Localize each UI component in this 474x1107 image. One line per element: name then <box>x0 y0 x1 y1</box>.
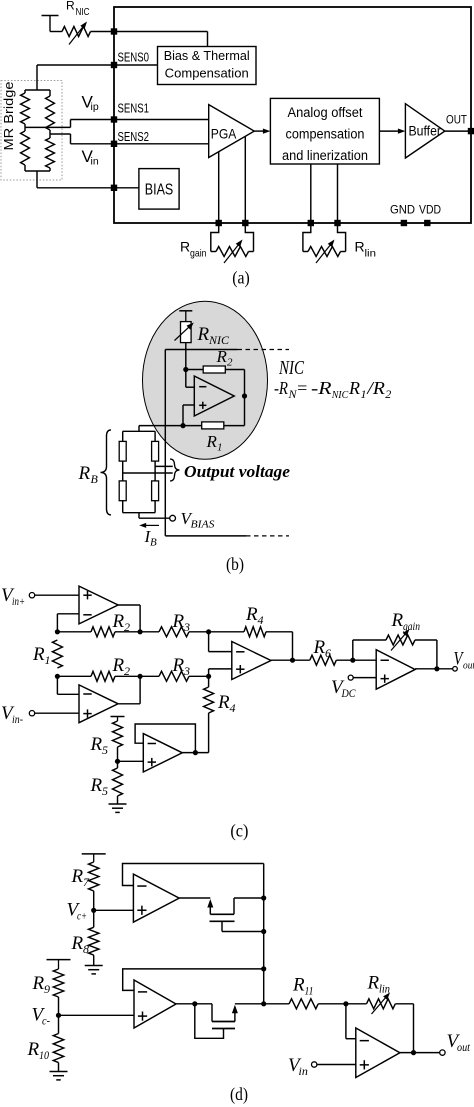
terminal stub above R_NIC <box>179 310 192 312</box>
wire A2 inverting input <box>57 693 79 695</box>
brace for output voltage <box>170 459 180 481</box>
node B3 output <box>411 1050 416 1055</box>
svg-text:3: 3 <box>183 664 190 678</box>
resistor R_6 <box>293 659 310 661</box>
svg-text:gain: gain <box>190 248 207 260</box>
wire SENS0 to Bias block <box>114 64 158 66</box>
resistor R_4 (vertical) <box>208 676 210 687</box>
resistor R_3 (bottom row) <box>140 675 159 677</box>
node A5 output <box>434 666 439 671</box>
wire B1 feedback loop <box>123 864 264 886</box>
svg-text:R: R <box>172 611 185 632</box>
wire R_gain down to output <box>436 640 438 669</box>
bridge resistor right-bottom <box>49 134 51 138</box>
wire A2 output feedback <box>118 703 140 705</box>
svg-text:10: 10 <box>39 1048 49 1062</box>
svg-text:R: R <box>216 347 228 366</box>
transistor Q1 (source arrow) <box>207 899 213 908</box>
node R_11 / B3 inverting <box>343 1001 348 1006</box>
node A2 inverting <box>55 674 60 679</box>
amplifier PGA triangle <box>209 105 255 158</box>
resistor R_NIC (variable, box style) <box>181 322 192 343</box>
node SENS0-bus / R_NIC junction <box>111 28 117 34</box>
svg-text:in: in <box>91 156 99 168</box>
node Q1 gate on bus <box>261 929 266 934</box>
dashed wire continuation bottom <box>246 535 289 537</box>
terminal V_out (d) <box>440 1050 445 1055</box>
wire output tap lower (from left column) <box>123 472 173 474</box>
wire output tap upper (from right column) <box>155 465 173 467</box>
wire R_gain feedback up <box>352 640 354 660</box>
wire Q2 gate loop to output node <box>195 1004 224 1039</box>
op-amp U1 (NIC) <box>194 376 234 416</box>
svg-text:1: 1 <box>217 442 223 454</box>
svg-text:ip: ip <box>91 101 99 113</box>
wire A3 feedback loop <box>135 724 195 753</box>
MR bridge dashed enclosure <box>1 81 62 181</box>
wire A5 output <box>415 668 453 670</box>
svg-text:2: 2 <box>124 620 130 634</box>
svg-text:9: 9 <box>44 982 50 996</box>
bus wire V_BIAS vertical <box>164 350 166 536</box>
wire Q1 gate to bus <box>221 921 223 931</box>
terminal V_in- <box>29 711 34 716</box>
resistor R_1 (vertical) <box>52 640 62 668</box>
terminal V_DC <box>348 675 353 680</box>
wire bottom node to A4 non-inverting <box>208 669 210 676</box>
wire top node to A4 inverting <box>208 632 210 652</box>
op-amp A1 <box>79 586 118 624</box>
svg-text:-R: -R <box>311 378 332 398</box>
svg-text:R: R <box>348 378 360 398</box>
wire node B down to R_B bridge top <box>138 426 140 432</box>
svg-text:3: 3 <box>183 620 190 634</box>
svg-text:Compensation: Compensation <box>165 66 249 81</box>
terminal V_in+ <box>29 593 34 598</box>
node B (+input/R_1/R_B top) <box>180 423 185 428</box>
wire V_c- to B2 <box>59 1014 135 1016</box>
wire node B line <box>139 425 202 427</box>
node BIAS <box>111 185 117 191</box>
node A4 output <box>290 658 295 663</box>
svg-text:5: 5 <box>102 743 108 757</box>
resistor R_lin (external variable) <box>303 223 311 252</box>
svg-text:(d): (d) <box>230 1084 248 1105</box>
node R_3/R_4 top <box>206 629 211 634</box>
node R_5 divider <box>115 759 120 764</box>
svg-text:4: 4 <box>230 701 236 715</box>
svg-text:R: R <box>313 637 326 658</box>
svg-text:in: in <box>299 1064 308 1078</box>
resistor R_B right-bottom (box) <box>152 481 159 501</box>
op-amp B3 <box>356 1028 400 1078</box>
pin Rgain-1 <box>216 220 222 226</box>
wire output right vertical <box>244 370 246 426</box>
wire V_in to B3 <box>317 1064 356 1066</box>
svg-text:Bias & Thermal: Bias & Thermal <box>164 48 250 63</box>
R_B bridge left column <box>122 431 124 441</box>
svg-text:6: 6 <box>325 646 331 660</box>
node V_c+ <box>91 908 96 913</box>
svg-text:4: 4 <box>258 613 264 627</box>
wire PGA to Rgain pin 2 <box>244 137 246 224</box>
pin Rgain-2 <box>242 220 248 226</box>
svg-text:BIAS: BIAS <box>191 519 216 531</box>
svg-text:R: R <box>66 0 75 13</box>
svg-text:R: R <box>180 239 190 255</box>
terminal stub above R_9 <box>47 959 71 961</box>
bridge resistor left-bottom <box>24 127 26 131</box>
NIC shaded ellipse <box>143 301 268 459</box>
wire bridge top to SENS0 <box>36 65 38 90</box>
pin GND <box>401 220 407 226</box>
svg-text:DC: DC <box>341 686 357 700</box>
terminal stub above R_5 <box>111 716 125 718</box>
svg-text:lin: lin <box>365 248 377 260</box>
wire B2 output <box>176 1003 195 1005</box>
wire non-inverting input <box>183 404 194 406</box>
bridge top rail wire <box>25 89 50 91</box>
resistor R_NIC (variable, top left) <box>50 31 62 33</box>
op-amp A4 (second stage) <box>232 642 271 680</box>
wire V_in- to A2 <box>35 712 79 714</box>
wire node A to R_2 <box>186 369 203 371</box>
terminal V_out (c) <box>453 667 458 672</box>
svg-text:B: B <box>150 537 157 549</box>
svg-text:NIC: NIC <box>208 333 230 347</box>
ground <box>109 803 127 805</box>
svg-text:PGA: PGA <box>211 125 237 141</box>
node V_c- <box>56 1013 61 1018</box>
bridge bottom rail wire <box>25 170 50 172</box>
svg-text:lin: lin <box>379 982 390 996</box>
node A1 feedback <box>138 629 143 634</box>
svg-text:R: R <box>112 655 125 676</box>
resistor R_7 <box>89 862 99 891</box>
wire A3 output to R_4 <box>182 752 208 754</box>
pin Rlin-1 <box>308 220 314 226</box>
resistor R_8 <box>93 910 95 927</box>
ground below R_10 <box>50 1071 68 1073</box>
svg-text:R: R <box>292 975 305 996</box>
bridge resistor right-top <box>49 90 51 96</box>
wire A4 output <box>271 659 293 661</box>
resistor R_2 (bottom row) <box>57 675 91 677</box>
node B2 feedback on bus <box>261 966 266 971</box>
wire right bridge tap (V_in) <box>50 133 71 135</box>
svg-text:out: out <box>457 1040 471 1054</box>
terminal V_BIAS <box>170 515 176 521</box>
svg-text:(b): (b) <box>226 554 244 575</box>
wire R_1 to output branch <box>224 425 245 427</box>
pin Rlin-2 <box>334 220 340 226</box>
wire node to A5 inverting <box>353 659 376 661</box>
node Q1 drain on bus <box>261 895 266 900</box>
svg-text:in+: in+ <box>12 594 25 608</box>
svg-text:R: R <box>245 604 258 625</box>
wire A1 inverting input <box>57 613 79 615</box>
panel (a) block diagram outer boundary rectangle (ASIC) <box>114 7 471 223</box>
svg-text:SENS0: SENS0 <box>118 50 150 65</box>
svg-text:R: R <box>71 866 84 887</box>
resistor R_2 (box) <box>203 366 225 373</box>
resistor R_B left-bottom (box) <box>119 481 126 501</box>
op-amp A5 (output stage) <box>376 650 415 690</box>
svg-text:NIC: NIC <box>278 357 304 379</box>
svg-text:SENS1: SENS1 <box>118 101 150 116</box>
svg-text:SENS2: SENS2 <box>118 129 150 144</box>
terminal stub above R_7 <box>82 853 106 855</box>
resistor R_5 (upper) <box>113 721 123 747</box>
resistor R_2 (top row) <box>57 631 91 633</box>
node output of U1 <box>242 393 247 398</box>
svg-text:8: 8 <box>83 942 89 956</box>
resistor R_lin (variable) <box>346 1003 367 1005</box>
svg-text:2: 2 <box>227 357 233 369</box>
svg-text:gain: gain <box>403 619 420 633</box>
wire V_c+ to B1 <box>94 909 134 911</box>
svg-text:R: R <box>367 973 380 994</box>
ground below R_8 <box>85 965 103 967</box>
wire R_NIC bottom to node A <box>185 343 187 388</box>
resistor R_gain (external variable) <box>211 223 219 252</box>
op-amp B1 <box>133 874 179 922</box>
block: BIAS <box>139 169 179 210</box>
wire offset block to Rlin pin 1 <box>310 164 312 223</box>
wire SENS2 to PGA <box>114 143 209 145</box>
wire V_DC to A5 <box>353 677 376 679</box>
wire node to dashed continuation (top) <box>165 349 237 351</box>
svg-text:Analog offset: Analog offset <box>288 105 363 120</box>
brace for R_B <box>101 430 112 515</box>
arrow PGA to offset block <box>254 130 263 132</box>
svg-text:2: 2 <box>385 387 391 401</box>
svg-text:-R: -R <box>274 378 288 398</box>
svg-text:(c): (c) <box>230 821 248 842</box>
op-amp A2 <box>79 685 118 723</box>
transistor Q1 gate <box>210 920 235 922</box>
wire B1 output to Q1 source <box>179 897 210 899</box>
resistor R_B right-top (box) <box>152 441 159 461</box>
resistor R_gain (variable feedback) <box>353 639 386 641</box>
wire R_2 to output branch <box>225 369 244 371</box>
svg-text:VDD: VDD <box>419 203 441 217</box>
node R_3/R_4 bottom <box>206 674 211 679</box>
svg-text:R: R <box>355 239 365 255</box>
svg-text:R: R <box>197 324 210 345</box>
svg-text:R: R <box>206 432 218 451</box>
dashed wire continuation top <box>238 349 290 351</box>
resistor R_9 <box>53 969 63 997</box>
wire to BIAS block <box>114 187 139 189</box>
transistor Q2 gate <box>212 1028 235 1030</box>
resistor R_B left-top (box) <box>119 441 126 461</box>
svg-text:R: R <box>90 775 103 796</box>
svg-text:R: R <box>391 610 404 631</box>
transistor Q2 channel <box>212 1021 235 1023</box>
svg-text:NIC: NIC <box>76 7 90 18</box>
node A3 output <box>193 750 198 755</box>
block: Bias & Thermal Compensation <box>158 47 257 85</box>
R_B bridge right column <box>154 431 156 441</box>
svg-text:R: R <box>32 973 45 994</box>
svg-text:R: R <box>90 734 103 755</box>
node SENS1 <box>111 116 117 122</box>
wire V_in+ to A1 <box>35 594 79 596</box>
wire inverting input <box>186 386 195 388</box>
wire bridge bottom to BIAS node <box>36 171 38 188</box>
transistor Q2 (source arrow) <box>232 1005 238 1014</box>
block: Analog offset compensation and linerization <box>270 98 379 164</box>
bus wire (feedback node) <box>263 864 265 1004</box>
svg-text:BIAS: BIAS <box>145 182 174 199</box>
wire bottom rail to V_BIAS terminal <box>138 513 140 519</box>
svg-text:1: 1 <box>361 387 367 401</box>
svg-text:Output voltage: Output voltage <box>184 462 290 481</box>
wire offset block to Rlin pin 2 <box>337 164 339 223</box>
node A (inverting input / R_NIC / R_2) <box>183 367 188 372</box>
svg-text:(a): (a) <box>232 268 250 289</box>
svg-text:R: R <box>32 644 45 665</box>
wire PGA to Rgain pin 1 <box>218 152 220 223</box>
resistor R_5 (lower) <box>117 761 119 768</box>
svg-text:and linerization: and linerization <box>282 148 368 163</box>
wire divider to A3 <box>118 760 144 762</box>
wire B3 output <box>400 1052 440 1054</box>
wire Buffer to OUT pin <box>445 130 471 132</box>
svg-text:7: 7 <box>83 875 90 889</box>
wire from R_NIC junction to Bias block top <box>114 31 208 33</box>
wire A1 output feedback <box>118 604 140 606</box>
R_B bridge top rail <box>123 430 155 432</box>
svg-text:MR Bridge: MR Bridge <box>2 81 16 150</box>
wire left bridge tap (V_ip) <box>25 126 71 128</box>
node A2 feedback <box>138 674 143 679</box>
op-amp A3 (buffer) <box>143 734 182 772</box>
svg-text:R: R <box>78 463 91 484</box>
svg-text:=: = <box>296 378 308 398</box>
R_B bridge bottom rail <box>123 512 155 514</box>
wire SENS1 to PGA <box>114 119 209 121</box>
wire Q1 drain to bus <box>233 898 235 914</box>
svg-text:/R: /R <box>366 378 385 398</box>
resistor R_1 (box) <box>202 422 224 429</box>
terminal V_in (d) <box>312 1062 317 1067</box>
svg-text:GND: GND <box>390 203 415 217</box>
node B2 output / Q2 gate tie <box>192 1001 197 1006</box>
resistor R_4 (feedback top) <box>209 631 244 633</box>
svg-text:Buffer: Buffer <box>409 123 442 138</box>
wire node down to B3 inverting <box>345 1004 347 1039</box>
svg-text:OUT: OUT <box>446 113 468 127</box>
wire Q2 drain from output <box>195 1003 212 1005</box>
svg-text:2: 2 <box>124 664 130 678</box>
wire bus bottom to dashed continuation <box>165 535 246 537</box>
node A5 input <box>350 658 355 663</box>
resistor R_11 <box>264 1003 289 1005</box>
svg-text:NIC: NIC <box>331 389 349 401</box>
svg-text:B: B <box>91 472 99 486</box>
current arrow I_B <box>143 524 159 526</box>
wire R_4 feedback down <box>292 632 294 660</box>
svg-text:R: R <box>172 655 185 676</box>
svg-text:R: R <box>217 692 230 713</box>
node A1 inverting <box>55 629 60 634</box>
resistor R_3 (top row) <box>140 631 159 633</box>
svg-text:R: R <box>71 933 84 954</box>
node SENS0 <box>111 62 117 68</box>
svg-text:c+: c+ <box>77 909 87 923</box>
svg-text:R: R <box>112 611 125 632</box>
node Q2 source on bus <box>261 1001 266 1006</box>
node SENS2 <box>111 141 117 147</box>
svg-text:compensation: compensation <box>286 127 365 142</box>
amplifier Buffer triangle <box>405 104 444 158</box>
svg-text:1: 1 <box>45 653 51 667</box>
terminal stub for R_NIC <box>42 15 59 17</box>
svg-text:11: 11 <box>305 984 314 998</box>
svg-text:out: out <box>463 660 474 672</box>
arrow offset block to Buffer <box>379 130 398 132</box>
resistor R_10 <box>58 1015 60 1033</box>
pin VDD <box>424 220 430 226</box>
wire Q2 source to bus <box>235 1003 264 1005</box>
op-amp B2 <box>134 980 176 1028</box>
wire B2 feedback loop <box>123 969 264 991</box>
bridge resistor left-top <box>24 90 26 93</box>
svg-text:R: R <box>27 1039 40 1060</box>
svg-text:5: 5 <box>102 784 108 798</box>
pin OUT <box>468 128 474 134</box>
wire R_lin down to output <box>413 1004 415 1053</box>
svg-text:c-: c- <box>42 1014 50 1028</box>
svg-text:in-: in- <box>12 712 23 726</box>
transistor Q1 channel <box>210 913 234 915</box>
